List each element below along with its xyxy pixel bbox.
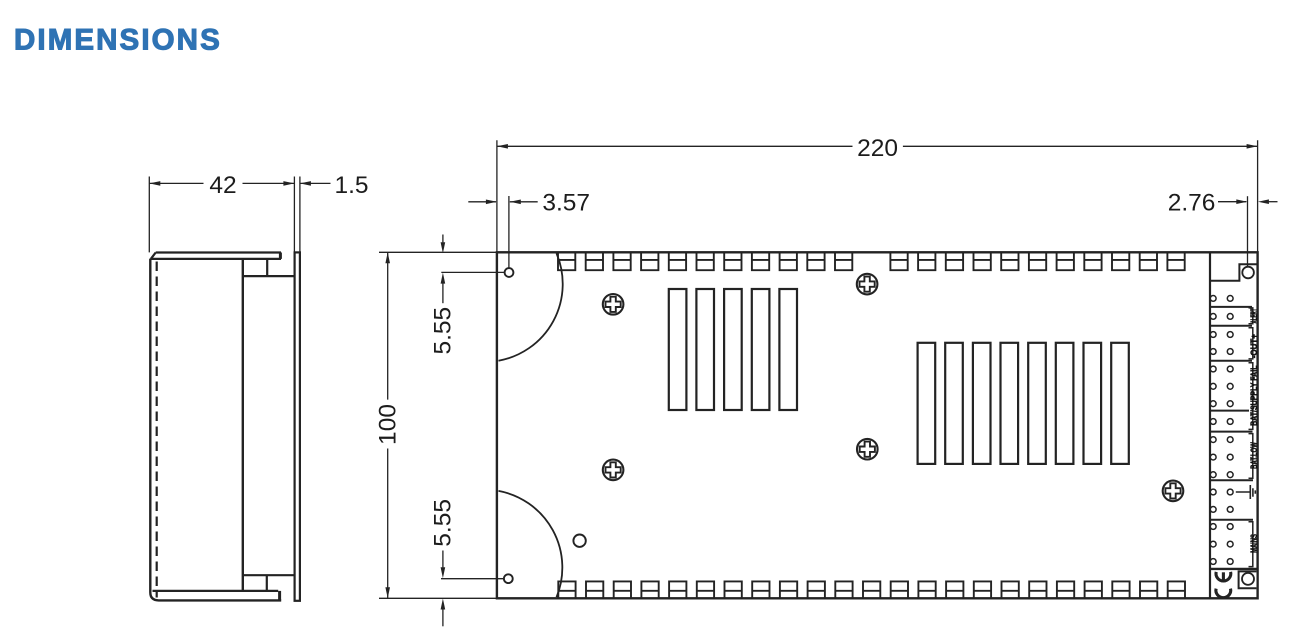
svg-text:BAT/SUPPLY FAIL: BAT/SUPPLY FAIL	[1249, 365, 1259, 426]
bottom-right hole box	[1239, 571, 1257, 588]
dim 2.76 extension line through hole	[1247, 196, 1249, 272]
plan view: top edge vent slots	[558, 253, 1185, 270]
dim 220: extension lines	[497, 140, 1258, 252]
phillips screw 1	[603, 294, 624, 315]
terminal block: left edge	[1209, 252, 1211, 598]
plan view: bottom edge vent slots	[558, 581, 1185, 598]
svg-text:42: 42	[209, 172, 236, 199]
plan view: bottom-left corner arc	[499, 491, 563, 597]
side view: inner wall line	[242, 259, 244, 591]
lower-left mounting hole	[504, 574, 513, 583]
terminal block: top notch	[1210, 264, 1257, 280]
dim 220: dimension line and arrows	[497, 144, 1258, 149]
side view: top step	[243, 259, 295, 276]
svg-text:1.5: 1.5	[334, 172, 368, 199]
dim 5.55 lower: arrows	[441, 551, 446, 627]
terminal block: label brackets	[1249, 308, 1253, 567]
free hole near lower-left arc	[573, 535, 585, 547]
plan view: upper ventilation slot group (5 slots)	[669, 289, 797, 410]
side view: bottom flange top line	[153, 590, 279, 592]
dim 220: text	[857, 135, 898, 162]
svg-text:MAINS: MAINS	[1249, 534, 1259, 553]
dim 2.76: text and arrows	[1168, 189, 1278, 216]
side view: bottom flange right end cap	[278, 591, 281, 601]
dim 42: text	[209, 172, 236, 199]
earth ground symbol	[1236, 485, 1256, 499]
upper mounting hole extension line	[441, 271, 509, 273]
terminal label -OUT+	[1249, 334, 1259, 358]
dim 100: dimension line and arrows	[385, 252, 390, 598]
phillips screw 5	[1163, 481, 1184, 502]
title DIMENSIONS	[14, 24, 222, 57]
terminal label MAINS	[1249, 534, 1259, 553]
plan view: lower ventilation slot group (8 slots)	[918, 343, 1129, 464]
dim 42: dimension line and arrows	[149, 181, 294, 186]
svg-text:BAT.LOW: BAT.LOW	[1249, 442, 1259, 469]
lower mounting hole extension line	[441, 578, 508, 580]
upper-left mounting hole	[505, 268, 514, 277]
dim 3.57: hole extension line	[508, 196, 510, 273]
corner hole top-right	[1242, 267, 1254, 279]
svg-text:5.55: 5.55	[429, 499, 456, 547]
terminal block: section divider lines	[1210, 307, 1253, 520]
svg-text:220: 220	[857, 135, 898, 162]
dim 5.55 upper: arrows	[441, 235, 446, 304]
svg-text:-OUT+: -OUT+	[1249, 334, 1259, 358]
dim 5.55 lower: text (rotated)	[429, 499, 456, 547]
dim 100: text (rotated)	[374, 404, 401, 445]
side view: hidden edge dashed line	[156, 262, 158, 598]
dim 3.57: right arrow and text	[510, 189, 590, 216]
phillips screw 4	[857, 439, 878, 460]
dim 3.57: left arrow	[468, 200, 497, 205]
dim 1.5: arrow and text	[300, 172, 369, 199]
side view: top flange	[151, 253, 281, 259]
svg-text:5.55: 5.55	[430, 307, 457, 355]
CE mark (rotated)	[1216, 572, 1231, 598]
svg-text:ALERT: ALERT	[1249, 308, 1259, 323]
terminal block: bottom section divider (thick)	[1210, 568, 1258, 570]
phillips screw 3	[603, 460, 624, 481]
dim 5.55 upper: text (rotated)	[430, 307, 457, 355]
side view: rear mounting plate (1.5 thick)	[295, 252, 300, 600]
plan view: outline	[497, 252, 1258, 598]
terminal label BAT.LOW	[1249, 442, 1259, 469]
plan view: top-left corner arc	[499, 253, 563, 360]
terminal label BAT/SUPPLY FAIL	[1249, 365, 1259, 426]
phillips screw 2	[857, 274, 878, 295]
svg-text:DIMENSIONS: DIMENSIONS	[14, 24, 222, 57]
dim 42: extension lines	[149, 177, 300, 253]
svg-text:2.76: 2.76	[1168, 189, 1216, 216]
svg-text:3.57: 3.57	[542, 189, 590, 216]
terminal block: terminal screw circles (16 rows x 2)	[1210, 296, 1233, 565]
svg-text:100: 100	[374, 404, 401, 445]
dim 100: extension lines	[379, 252, 497, 598]
side view: left wall and bottom flange bottom line	[150, 259, 281, 601]
terminal label ALERT	[1249, 308, 1259, 323]
side view: bottom step	[243, 575, 295, 591]
bottom-right hole	[1242, 573, 1254, 585]
